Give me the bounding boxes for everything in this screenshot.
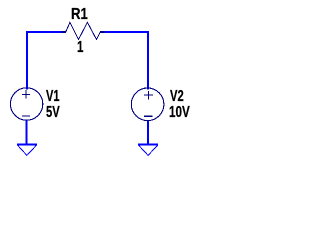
ground symbol under V2 xyxy=(138,143,158,145)
label 5V xyxy=(46,105,60,121)
label V1 xyxy=(46,89,60,105)
V2 plus sign xyxy=(144,91,153,100)
wire top-right: from resistor across and down to V2 top xyxy=(104,32,148,90)
label V2 xyxy=(170,89,184,105)
resistor R1 zigzag xyxy=(62,31,105,33)
label 10V xyxy=(169,105,190,121)
wire V2 bottom to ground xyxy=(147,121,149,146)
wire top-left: from V1 top up and across to resistor xyxy=(27,32,62,90)
voltage source V2 circle xyxy=(131,88,164,121)
label R1 xyxy=(71,7,88,23)
V1 plus sign xyxy=(22,90,30,98)
V1 minus sign xyxy=(22,115,30,117)
voltage source V1 circle xyxy=(10,88,42,120)
V2 minus sign xyxy=(144,115,152,117)
wire V1 bottom to ground xyxy=(25,121,27,146)
ground symbol under V1 xyxy=(17,143,37,145)
label resistor value 1 xyxy=(77,40,83,56)
